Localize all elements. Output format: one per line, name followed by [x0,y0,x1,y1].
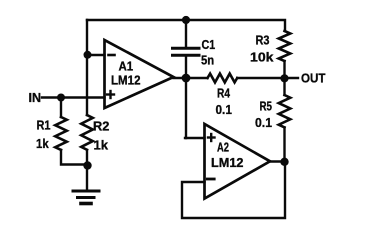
svg-text:R2: R2 [93,120,109,134]
svg-text:OUT: OUT [301,72,326,86]
svg-text:LM12: LM12 [211,156,244,170]
svg-text:0.1: 0.1 [216,103,232,117]
svg-text:C1: C1 [202,38,216,52]
svg-text:1k: 1k [94,139,109,153]
svg-text:R5: R5 [260,100,273,114]
svg-text:LM12: LM12 [111,74,141,88]
svg-text:R3: R3 [256,34,270,48]
svg-text:R1: R1 [37,119,51,133]
svg-text:1k: 1k [36,137,49,151]
svg-text:0.1: 0.1 [255,116,272,130]
svg-text:10k: 10k [250,51,274,65]
svg-text:A2: A2 [217,141,229,155]
svg-text:5n: 5n [201,53,214,67]
svg-text:R4: R4 [217,87,230,101]
svg-text:IN: IN [29,91,42,105]
svg-text:A1: A1 [119,60,134,74]
